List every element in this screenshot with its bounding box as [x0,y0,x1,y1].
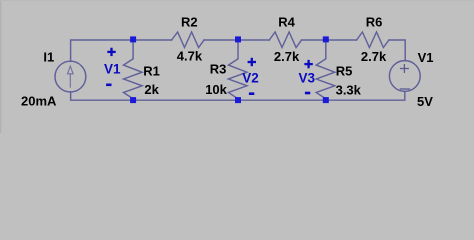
junction node C bottom [323,97,329,103]
svg-text:V1: V1 [104,61,121,76]
svg-text:10k: 10k [205,82,227,97]
junction node B bottom [235,97,241,103]
voltage source V1 plus sign [400,68,409,70]
resistor R6 zigzag [357,32,389,48]
svg-text:2k: 2k [144,82,159,97]
current source I1 circle [55,61,86,92]
svg-text:R5: R5 [336,63,353,78]
svg-text:3.3k: 3.3k [336,83,362,98]
wire top rail: R2 to R4 [204,39,269,41]
svg-text:2.7k: 2.7k [274,49,300,64]
svg-text:V1: V1 [418,50,434,65]
voltage source V1 circle [389,61,420,92]
node label V3 plus [304,60,312,68]
wire bottom rail: I1 bottom to V1 bottom [71,92,405,101]
node label V3 minus [305,92,310,95]
node label V2 minus [249,92,254,95]
svg-text:R4: R4 [278,15,295,30]
resistor R1 (vertical, node A) [124,40,143,99]
svg-text:V3: V3 [299,70,316,85]
svg-text:R6: R6 [366,15,383,30]
current source I1 arrow [68,66,74,88]
resistor R5 (vertical, node C) [316,40,335,99]
resistor R4 zigzag [269,32,301,48]
svg-text:5V: 5V [417,94,433,109]
node label V1 plus [107,48,115,56]
svg-text:V2: V2 [242,71,259,86]
junction node C top [323,36,329,42]
svg-text:R1: R1 [143,64,160,79]
junction node A bottom [130,97,136,103]
node label V1 minus [106,84,111,87]
wire top rail left: I1 top to R2 [71,40,172,61]
svg-text:R2: R2 [181,15,198,30]
junction node A top [130,36,136,42]
svg-text:R3: R3 [210,61,227,76]
voltage source V1 minus sign [400,88,410,90]
wire top rail right: R6 to V1 top [389,40,405,61]
svg-text:2.7k: 2.7k [361,49,387,64]
svg-text:4.7k: 4.7k [177,48,203,63]
svg-text:20mA: 20mA [21,94,57,109]
svg-text:I1: I1 [43,49,54,64]
resistor R2 zigzag [172,32,204,48]
resistor R3 (vertical, node B) [228,40,247,99]
wire top rail: R4 to R6 [302,39,357,41]
junction node B top [235,36,241,42]
node label V2 plus [248,58,256,66]
